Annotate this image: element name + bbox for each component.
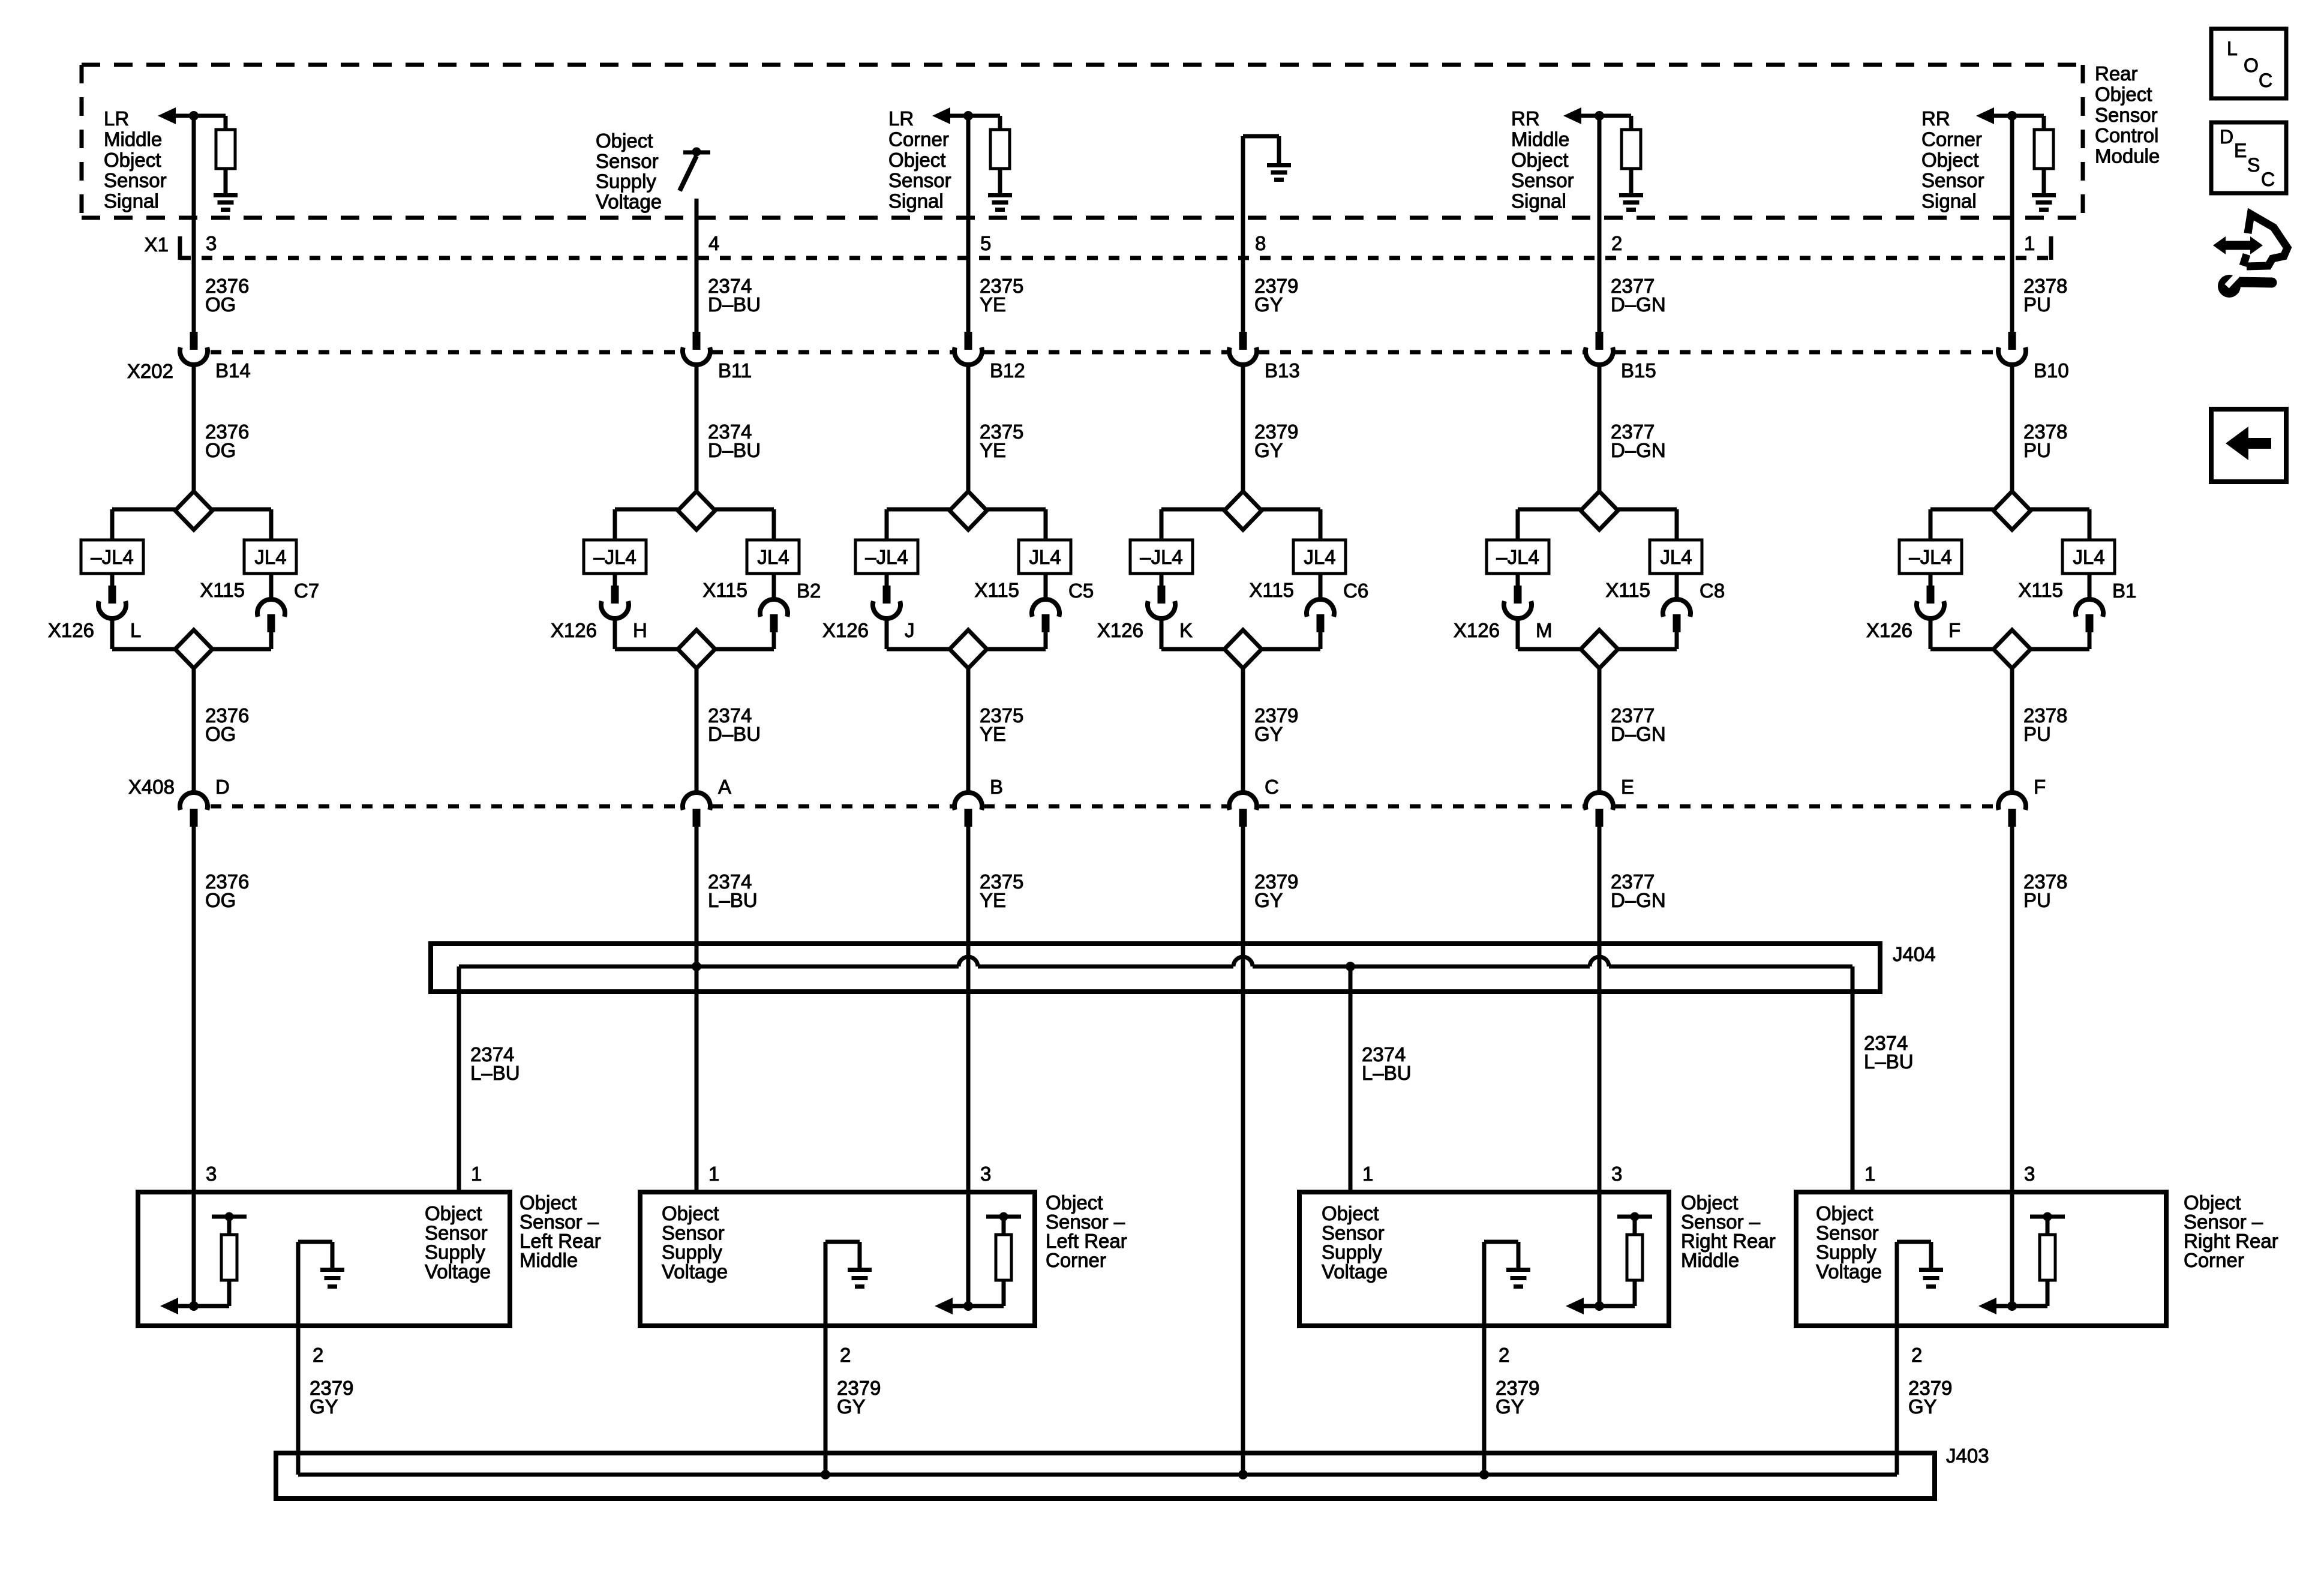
label 2374 D–BU [708, 421, 761, 461]
connector X126 pin L [98, 574, 126, 619]
connector X408 pin E [1586, 792, 1613, 827]
module box: Rear Object Sensor Control Module (dashed outline) [82, 65, 2083, 218]
connector X126 pin J [873, 574, 900, 619]
option box –JL4 column 6 [1899, 540, 1962, 574]
svg-text:JL4: JL4 [757, 546, 789, 568]
svg-text:1: 1 [1362, 1163, 1373, 1185]
svg-text:Middle: Middle [1511, 128, 1569, 150]
svg-text:D: D [215, 776, 230, 798]
connector X115 pin C6 [1307, 574, 1334, 632]
connector X1 right bracket [2049, 236, 2053, 260]
svg-text:A: A [718, 776, 731, 798]
module output: RR Middle Object Sensor Signal (arrow, pull-up resistor, ground) [1563, 107, 1643, 212]
svg-text:B2: B2 [797, 580, 821, 602]
svg-text:Corner: Corner [2184, 1249, 2244, 1271]
svg-text:PU: PU [2023, 889, 2051, 911]
svg-text:–JL4: –JL4 [1140, 546, 1183, 568]
wire 2379 GY from pin 2 to J403 [1482, 1326, 1487, 1475]
wire 2376 OG from X202 to splice [192, 365, 196, 492]
svg-text:YE: YE [980, 889, 1006, 911]
svg-text:D: D [2220, 126, 2233, 148]
svg-text:3: 3 [2024, 1163, 2035, 1185]
svg-text:GY: GY [837, 1395, 866, 1418]
svg-text:1: 1 [1864, 1163, 1875, 1185]
svg-text:Module: Module [2095, 145, 2160, 167]
splice diamond (top) column 4 [1224, 491, 1262, 530]
sensor internal: supply tee, resistor, signal arrow [1566, 1192, 1652, 1314]
svg-text:X408: X408 [128, 776, 175, 798]
svg-text:X126: X126 [1454, 619, 1500, 641]
svg-text:Signal: Signal [104, 190, 159, 212]
splice diamond (bottom) column 4 [1224, 630, 1262, 668]
wire 2379 GY from pin 2 to J403 [1895, 1326, 1899, 1475]
wire 2377 D–GN from splice to X408 [1598, 668, 1602, 793]
svg-text:Object: Object [104, 149, 161, 171]
splice pack J403 outer box [276, 1453, 1935, 1499]
option box JL4 column 1 [244, 540, 296, 574]
svg-text:Voltage: Voltage [1816, 1260, 1882, 1283]
svg-text:C6: C6 [1343, 580, 1368, 602]
label 2379 GY [1254, 421, 1298, 461]
wire 2378 PU from splice to X408 [2010, 668, 2014, 793]
svg-text:LR: LR [104, 107, 129, 130]
label: Object Sensor - Right Rear Middle [1681, 1191, 1776, 1271]
connector X126 pin M [1504, 574, 1532, 619]
svg-text:X1: X1 [145, 233, 169, 256]
wire crossover (no splice) [1590, 957, 1609, 966]
module output: LR Corner Object Sensor Signal (arrow, pull-up resistor, ground) [932, 107, 1012, 212]
svg-text:–JL4: –JL4 [1909, 546, 1952, 568]
svg-text:GY: GY [1254, 439, 1283, 461]
option box –JL4 column 3 [855, 540, 918, 574]
label: Object Sensor Supply Voltage [425, 1202, 491, 1283]
option box JL4 column 6 [2062, 540, 2115, 574]
connector X202 pin B10 [1998, 332, 2026, 365]
wire crossover (no splice) [959, 957, 978, 966]
svg-text:Sensor: Sensor [596, 150, 659, 172]
sensor internal ground [298, 1242, 344, 1326]
wires into lower splice column 3 [887, 619, 1046, 649]
svg-text:D–GN: D–GN [1611, 723, 1666, 745]
svg-text:B10: B10 [2034, 359, 2069, 382]
label: Object Sensor Supply Voltage [1322, 1202, 1388, 1283]
svg-text:RR: RR [1511, 107, 1540, 130]
label 2376 OG [205, 421, 249, 461]
label: LR Corner Object Sensor Signal [888, 107, 951, 212]
connector X202 row (dashed) [211, 350, 1996, 355]
wire 2379 GY from X202 to splice [1241, 365, 1245, 492]
splice diamond (bottom) column 6 [1993, 630, 2031, 668]
option box –JL4 column 5 [1487, 540, 1549, 574]
svg-text:D–BU: D–BU [708, 439, 761, 461]
connector X202 pin B14 [180, 332, 208, 365]
wire 2377 D–GN from X202 to splice [1598, 365, 1602, 492]
svg-text:B1: B1 [2112, 580, 2136, 602]
module output: RR Corner Object Sensor Signal (arrow, pull-up resistor, ground) [1976, 107, 2056, 212]
splice diamond (bottom) column 1 [175, 630, 212, 668]
splice diamond (top) column 6 [1993, 491, 2031, 530]
svg-text:D–BU: D–BU [708, 723, 761, 745]
sensor box: Object Sensor - Right Rear Middle [1299, 1192, 1669, 1326]
wires into lower splice column 1 [112, 619, 271, 649]
connector X202 pin B12 [954, 332, 982, 365]
svg-text:Voltage: Voltage [1322, 1260, 1388, 1283]
splice diamond (bottom) column 2 [678, 630, 715, 668]
svg-text:PU: PU [2023, 723, 2051, 745]
wire 2375 YE from module pin 5 to X202 [966, 118, 971, 332]
option box JL4 column 5 [1650, 540, 1702, 574]
label: Object Sensor - Right Rear Corner [2184, 1191, 2278, 1271]
icon: harness repair (double arrow, wire outline, wrench) [2213, 214, 2287, 298]
svg-text:C7: C7 [294, 580, 319, 602]
svg-text:F: F [2034, 776, 2046, 798]
svg-text:C5: C5 [1068, 580, 1094, 602]
connector X408 pin A [683, 792, 710, 827]
icon: LOC box [2211, 29, 2286, 98]
connector X202 pin B13 [1229, 332, 1257, 365]
svg-text:X115: X115 [974, 579, 1019, 601]
svg-text:B15: B15 [1621, 359, 1656, 382]
option box –JL4 column 4 [1130, 540, 1193, 574]
label 2379 GY [1254, 870, 1298, 911]
sensor internal: supply tee, resistor, signal arrow [160, 1192, 247, 1314]
svg-text:C: C [2261, 169, 2275, 190]
svg-text:OG: OG [205, 723, 236, 745]
svg-text:2: 2 [840, 1344, 851, 1366]
svg-text:X202: X202 [127, 360, 173, 382]
sensor box: Object Sensor - Left Rear Middle [138, 1192, 510, 1326]
svg-text:Corner: Corner [1921, 128, 1982, 150]
svg-text:D–GN: D–GN [1611, 293, 1666, 316]
svg-text:C8: C8 [1700, 580, 1725, 602]
svg-text:B14: B14 [215, 359, 251, 382]
label 2375 YE [980, 870, 1023, 911]
svg-text:Voltage: Voltage [425, 1260, 491, 1283]
sensor box: Object Sensor - Left Rear Corner [640, 1192, 1035, 1326]
svg-text:X126: X126 [1866, 619, 1912, 641]
wire 2374 D–BU from module pin 4 to X202 [695, 199, 699, 332]
sensor internal ground [1484, 1242, 1530, 1326]
svg-text:L–BU: L–BU [1362, 1062, 1412, 1084]
sensor internal: supply tee, resistor, signal arrow [935, 1192, 1021, 1314]
svg-text:H: H [633, 619, 647, 641]
label: Object Sensor Supply Voltage [596, 130, 662, 212]
wire 2379 GY from pin 2 to J403 [824, 1326, 828, 1475]
wire 2379 GY from pin 2 to J403 [296, 1326, 301, 1475]
svg-text:E: E [2234, 140, 2247, 161]
splice junction [1479, 1470, 1489, 1479]
svg-text:Object: Object [1511, 149, 1568, 171]
svg-text:Supply: Supply [596, 170, 656, 193]
svg-text:Rear: Rear [2095, 62, 2138, 85]
svg-text:3: 3 [206, 1163, 217, 1185]
splice diamond (top) column 5 [1581, 491, 1618, 530]
svg-text:Sensor: Sensor [888, 169, 951, 191]
connector X126 pin H [601, 574, 629, 619]
svg-text:GY: GY [1496, 1395, 1524, 1418]
sensor box: Object Sensor - Right Rear Corner [1796, 1192, 2166, 1326]
svg-text:Object: Object [2095, 83, 2152, 105]
svg-text:O: O [2244, 55, 2259, 76]
svg-text:JL4: JL4 [1660, 546, 1692, 568]
wire 2378 PU below X408 [2010, 827, 2014, 1192]
wire branches column 5 [1518, 509, 1677, 540]
connector X408 pin D [180, 792, 208, 827]
svg-text:YE: YE [980, 293, 1006, 316]
svg-text:F: F [1948, 619, 1960, 641]
label: LR Middle Object Sensor Signal [104, 107, 167, 212]
sensor internal ground [825, 1242, 872, 1326]
module output: LR Middle Object Sensor Signal (arrow, pull-up resistor, ground) [158, 107, 238, 212]
wire branches column 2 [615, 509, 774, 540]
option box JL4 column 3 [1019, 540, 1071, 574]
svg-text:8: 8 [1255, 232, 1266, 254]
svg-text:Signal: Signal [888, 190, 944, 212]
svg-text:GY: GY [310, 1395, 338, 1418]
svg-text:B12: B12 [990, 359, 1025, 382]
svg-text:Object: Object [1921, 149, 1978, 171]
svg-text:Middle: Middle [520, 1249, 578, 1271]
svg-text:Voltage: Voltage [662, 1260, 728, 1283]
connector X126 pin K [1148, 574, 1175, 619]
splice diamond (top) column 2 [678, 491, 715, 530]
svg-text:X115: X115 [1249, 579, 1294, 601]
svg-text:1: 1 [471, 1163, 482, 1185]
wire 2378 PU from module pin 1 to X202 [2010, 118, 2014, 332]
wire branches column 3 [887, 509, 1046, 540]
svg-text:S: S [2247, 154, 2260, 176]
svg-text:X115: X115 [702, 579, 747, 601]
svg-text:Object: Object [596, 130, 653, 152]
svg-text:RR: RR [1921, 107, 1950, 130]
svg-text:JL4: JL4 [1029, 546, 1061, 568]
svg-text:OG: OG [205, 293, 236, 316]
svg-text:3: 3 [1611, 1163, 1622, 1185]
svg-text:1: 1 [2024, 232, 2035, 254]
svg-text:L: L [130, 619, 141, 641]
label: Object Sensor - Left Rear Corner [1046, 1191, 1127, 1271]
splice pack J404 outer box [431, 944, 1880, 992]
svg-text:J: J [905, 619, 915, 641]
wire 2379 GY from splice to X408 [1241, 668, 1245, 793]
label: RR Middle Object Sensor Signal [1511, 107, 1574, 212]
svg-text:L–BU: L–BU [708, 889, 758, 911]
connector X126 pin F [1917, 574, 1944, 619]
label 2378 PU [2023, 275, 2067, 316]
label 2378 PU [2023, 421, 2067, 461]
option box JL4 column 4 [1293, 540, 1346, 574]
label 2378 PU [2023, 704, 2067, 745]
svg-text:C: C [2259, 70, 2272, 91]
wire 2374 D–BU from X202 to splice [695, 365, 699, 492]
label 2375 YE [980, 421, 1023, 461]
label 2377 D–GN [1611, 704, 1666, 745]
svg-text:LR: LR [888, 107, 914, 130]
label 2379 GY [1254, 275, 1298, 316]
connector X408 pin B [954, 792, 982, 827]
svg-text:YE: YE [980, 723, 1006, 745]
svg-text:D–BU: D–BU [708, 293, 761, 316]
svg-text:GY: GY [1254, 293, 1283, 316]
svg-text:–JL4: –JL4 [593, 546, 636, 568]
connector X202 pin B11 [683, 332, 710, 365]
label 2377 D–GN [1611, 275, 1666, 316]
svg-text:X126: X126 [48, 619, 94, 641]
svg-text:B13: B13 [1265, 359, 1300, 382]
svg-text:L–BU: L–BU [1864, 1050, 1914, 1073]
svg-text:JL4: JL4 [254, 546, 286, 568]
svg-text:2: 2 [313, 1344, 323, 1366]
splice diamond (top) column 1 [175, 491, 212, 530]
svg-text:JL4: JL4 [1304, 546, 1335, 568]
svg-text:JL4: JL4 [2073, 546, 2104, 568]
label 2377 D–GN [1611, 870, 1666, 911]
svg-text:X126: X126 [1097, 619, 1143, 641]
splice diamond (bottom) column 3 [950, 630, 987, 668]
label 2374 L–BU [708, 870, 758, 911]
svg-text:GY: GY [1908, 1395, 1937, 1418]
connector X1 row (dashed) [180, 256, 2051, 260]
wire 2379 GY from module pin 8 to X202 [1241, 218, 1245, 332]
svg-text:L: L [2227, 38, 2238, 59]
svg-text:Middle: Middle [1681, 1249, 1739, 1271]
label 2379 GY [1254, 704, 1298, 745]
svg-text:OG: OG [205, 439, 236, 461]
wires into lower splice column 2 [615, 619, 774, 649]
svg-text:C: C [1265, 776, 1279, 798]
wire 2376 OG from splice to X408 [192, 668, 196, 793]
svg-text:Signal: Signal [1921, 190, 1977, 212]
svg-text:Signal: Signal [1511, 190, 1566, 212]
wire 2377 D–GN from module pin 2 to X202 [1598, 118, 1602, 332]
svg-text:GY: GY [1254, 889, 1283, 911]
svg-text:B: B [990, 776, 1003, 798]
svg-text:–JL4: –JL4 [91, 546, 134, 568]
svg-text:J404: J404 [1893, 943, 1936, 965]
wire 2374 L–BU below X408 [695, 827, 699, 1192]
wires into lower splice column 4 [1161, 619, 1320, 649]
label 2376 OG [205, 275, 249, 316]
svg-text:–JL4: –JL4 [865, 546, 908, 568]
label 2376 OG [205, 704, 249, 745]
svg-text:1: 1 [708, 1163, 719, 1185]
wire branches column 4 [1161, 509, 1320, 540]
svg-text:L–BU: L–BU [470, 1062, 520, 1084]
svg-text:3: 3 [980, 1163, 991, 1185]
wire 2375 YE from splice to X408 [966, 668, 971, 793]
label 2374 D–BU [708, 275, 761, 316]
label 2378 PU [2023, 870, 2067, 911]
connector X408 pin C [1229, 792, 1257, 827]
wire 2374 L-BU drop to Right Rear Corner pin 1 [1851, 966, 1855, 1192]
svg-text:4: 4 [708, 232, 719, 254]
svg-text:Middle: Middle [104, 128, 162, 150]
svg-text:2: 2 [1611, 232, 1622, 254]
svg-text:Corner: Corner [888, 128, 949, 150]
svg-text:Sensor: Sensor [1511, 169, 1574, 191]
svg-text:YE: YE [980, 439, 1006, 461]
wire 2374 L-BU drop to Right Rear Middle pin 1 [1349, 966, 1353, 1192]
wire 2375 YE below X408 [966, 827, 971, 1192]
label 2376 OG [205, 870, 249, 911]
wire branches column 1 [112, 509, 271, 540]
svg-text:PU: PU [2023, 439, 2051, 461]
label 2374 D–BU [708, 704, 761, 745]
option box –JL4 column 2 [584, 540, 646, 574]
icon: DESC box [2211, 122, 2286, 193]
sensor internal ground [1897, 1242, 1943, 1326]
splice junction J404 branch [1346, 962, 1355, 971]
svg-text:Control: Control [2095, 124, 2158, 146]
splice pack J403 bus wire [298, 1473, 1897, 1477]
svg-text:OG: OG [205, 889, 236, 911]
label: Object Sensor Supply Voltage [1816, 1202, 1882, 1283]
wire 2377 D–GN below X408 [1598, 827, 1602, 1192]
label 2375 YE [980, 275, 1023, 316]
svg-text:GY: GY [1254, 723, 1283, 745]
label: Object Sensor - Left Rear Middle [520, 1191, 601, 1271]
svg-text:5: 5 [980, 232, 991, 254]
icon: back arrow box [2211, 409, 2286, 482]
module switch: Object Sensor Supply Voltage [680, 148, 710, 191]
svg-text:Voltage: Voltage [596, 190, 662, 212]
splice junction J404 to pin A wire [692, 962, 701, 971]
splice junction [821, 1470, 830, 1479]
wire 2376 OG below X408 [192, 827, 196, 1192]
svg-text:X115: X115 [1605, 579, 1650, 601]
svg-text:M: M [1536, 619, 1553, 641]
connector X115 pin B2 [760, 574, 788, 632]
label 2375 YE [980, 704, 1023, 745]
svg-text:X115: X115 [200, 579, 245, 601]
wire crossover (no splice) [1233, 957, 1253, 966]
label: RR Corner Object Sensor Signal [1921, 107, 1984, 212]
connector X408 pin F [1998, 792, 2026, 827]
svg-text:2: 2 [1499, 1344, 1509, 1366]
svg-text:X126: X126 [822, 619, 869, 641]
splice diamond (top) column 3 [950, 491, 987, 530]
wire 2376 OG from module pin 3 to X202 [192, 118, 196, 332]
splice pack J404 bus wire [459, 965, 1852, 969]
connector X1 left bracket [178, 236, 182, 260]
connector X115 pin C8 [1663, 574, 1691, 632]
svg-text:D–GN: D–GN [1611, 889, 1666, 911]
wire 2375 YE from X202 to splice [966, 365, 971, 492]
wire branches column 6 [1930, 509, 2089, 540]
svg-text:D–GN: D–GN [1611, 439, 1666, 461]
svg-text:J403: J403 [1946, 1445, 1989, 1467]
module name label [2095, 62, 2160, 167]
svg-text:Sensor: Sensor [104, 169, 167, 191]
svg-text:Corner: Corner [1046, 1249, 1106, 1271]
wires into lower splice column 6 [1930, 619, 2089, 649]
splice diamond (bottom) column 5 [1581, 630, 1618, 668]
connector X115 pin B1 [2076, 574, 2103, 632]
svg-text:X126: X126 [551, 619, 597, 641]
connector X115 pin C5 [1032, 574, 1059, 632]
module internal ground (pin 8 branch) [1243, 136, 1291, 218]
connector X115 pin C7 [257, 574, 285, 632]
label 2377 D–GN [1611, 421, 1666, 461]
wire 2378 PU from X202 to splice [2010, 365, 2014, 492]
wire 2374 D–BU from splice to X408 [695, 668, 699, 793]
svg-text:B11: B11 [718, 359, 752, 382]
svg-text:Sensor: Sensor [1921, 169, 1984, 191]
label: Object Sensor Supply Voltage [662, 1202, 728, 1283]
wires into lower splice column 5 [1518, 619, 1677, 649]
wire 2374 L-BU drop to Left Rear Middle pin 1 [457, 966, 461, 1192]
splice junction J403/ground wire [1238, 1470, 1248, 1479]
